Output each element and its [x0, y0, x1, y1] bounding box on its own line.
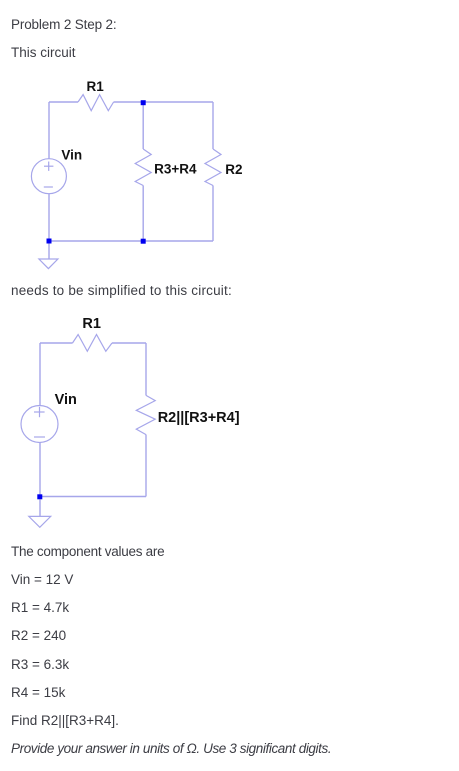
wire: circuit1 ground stub — [48, 244, 50, 260]
wire: circuit2 right vertical upper — [145, 343, 147, 395]
svg-text:Vin: Vin — [61, 147, 82, 162]
svg-text:R1: R1 — [87, 79, 105, 94]
resistor R2||[R3+R4] (circuit 2) — [136, 395, 155, 434]
wire: circuit1 top-left segment — [49, 101, 78, 103]
wire: circuit2 right vertical lower — [145, 435, 147, 497]
node: circuit1 bottom-middle junction — [141, 239, 146, 244]
node: circuit1 bottom-left junction — [47, 239, 52, 244]
svg-text:R3+R4: R3+R4 — [154, 161, 197, 176]
wire: circuit2 left vertical lower — [39, 443, 41, 497]
svg-text:R2||[R3+R4]: R2||[R3+R4] — [158, 410, 240, 426]
wire: circuit1 right vertical lower — [212, 186, 214, 242]
resistor R2 (circuit 1) — [205, 149, 221, 186]
wire: circuit1 top segment right of R1 — [114, 101, 213, 103]
wire: circuit1 middle vertical upper — [142, 102, 144, 149]
wire: circuit1 middle vertical lower — [142, 186, 144, 242]
voltage source Vin (circuit 2) — [21, 406, 58, 443]
wire: circuit1 right vertical upper — [212, 102, 214, 149]
wire: circuit2 top segment right of R1 — [112, 342, 146, 344]
svg-text:R1: R1 — [82, 316, 101, 332]
wire: circuit1 left vertical lower — [48, 194, 50, 241]
node: circuit2 ground junction — [37, 494, 42, 499]
voltage source Vin (circuit 1) — [31, 159, 66, 194]
ground (circuit 2) — [29, 516, 51, 527]
wire: circuit1 bottom — [49, 240, 213, 242]
wire: circuit2 ground stub — [39, 500, 41, 517]
wire: circuit1 left vertical upper — [48, 102, 50, 159]
resistor R1 (circuit 2) — [73, 335, 113, 352]
wire: circuit2 left vertical upper — [39, 343, 41, 406]
ground (circuit 1) — [39, 259, 58, 269]
resistor R1 (circuit 1) — [78, 95, 114, 111]
node: circuit1 top junction — [141, 100, 146, 105]
svg-text:R2: R2 — [225, 162, 242, 177]
wire: circuit2 top-left segment — [40, 342, 73, 344]
wire: circuit2 bottom — [40, 496, 146, 498]
resistor R3+R4 (circuit 1) — [135, 149, 151, 186]
svg-text:Vin: Vin — [55, 392, 77, 408]
